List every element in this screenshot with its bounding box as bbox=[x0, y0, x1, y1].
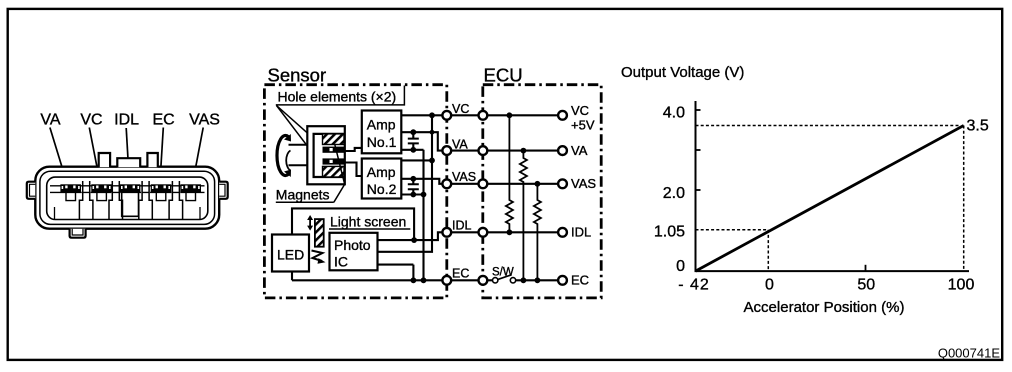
svg-text:VA: VA bbox=[40, 112, 60, 129]
svg-text:LED: LED bbox=[277, 247, 304, 263]
magnet yoke outer box bbox=[307, 126, 345, 184]
junction dot Amp2 ground tap bbox=[421, 192, 427, 198]
svg-text:VC: VC bbox=[80, 112, 102, 129]
junction dot R1 top on VC bbox=[507, 112, 513, 118]
resistor R2 vertical with zigzag bbox=[520, 151, 527, 281]
X axis bbox=[695, 270, 970, 272]
light screen hatched bar bbox=[315, 219, 324, 247]
switch S/W blade bbox=[498, 275, 512, 280]
Y axis bbox=[695, 101, 697, 271]
svg-text:VC: VC bbox=[452, 102, 469, 116]
connector top tab left bbox=[99, 153, 110, 167]
svg-text:3.5: 3.5 bbox=[967, 118, 989, 135]
connector circle IDL ECU side bbox=[479, 228, 488, 237]
svg-text:S/W: S/W bbox=[492, 267, 514, 279]
svg-text:Photo: Photo bbox=[334, 237, 371, 253]
svg-text:VC: VC bbox=[571, 103, 589, 118]
y tick 4.0 bbox=[696, 109, 701, 111]
svg-text:Sensor: Sensor bbox=[268, 65, 327, 86]
pin 4 EC terminal bbox=[151, 184, 172, 192]
harness wire IDL bbox=[451, 231, 479, 233]
junction dot cap C2 top bbox=[410, 176, 416, 182]
svg-text:No.1: No.1 bbox=[367, 134, 397, 150]
cavity deep slot under pin3 bbox=[122, 192, 139, 216]
wire Amp1 ground bbox=[401, 149, 423, 151]
harness wire EC bbox=[451, 279, 479, 281]
wire photo IC IDL output bbox=[378, 232, 443, 240]
svg-text:1.05: 1.05 bbox=[654, 224, 685, 241]
switch S/W contact right bbox=[510, 278, 515, 283]
connector side lug right bbox=[219, 182, 228, 199]
harness wire VAS bbox=[451, 183, 479, 185]
resistor R3 vertical with zigzag bbox=[534, 184, 541, 280]
cavity stub under pin5 bbox=[186, 192, 196, 200]
ECU terminal VC +5V bbox=[558, 111, 567, 120]
ECU wire VC to terminal bbox=[487, 114, 558, 116]
junction dot R3 top on VAS bbox=[535, 181, 541, 187]
dashed vertical at 0 percent bbox=[767, 230, 769, 271]
rib tower between pin2 pin3 bbox=[109, 181, 123, 219]
wire VA output of Amp1 bbox=[401, 132, 442, 150]
photo IC U3 box bbox=[330, 233, 378, 270]
dashed vertical at 100 percent bbox=[963, 126, 965, 272]
connector side lug left inner line bbox=[30, 184, 36, 196]
connector circle EC ECU side bbox=[479, 276, 488, 285]
connector circle VC ECU side bbox=[479, 111, 488, 120]
connector circle VAS sensor side bbox=[442, 179, 451, 188]
cavity stub under pin1 bbox=[66, 192, 76, 200]
svg-text:Magnets: Magnets bbox=[276, 187, 330, 203]
junction dot R2 top on VA bbox=[521, 148, 527, 154]
leader line EC to pin 4 bbox=[160, 128, 164, 186]
svg-text:50: 50 bbox=[857, 277, 875, 294]
connector circle VAS ECU side bbox=[479, 179, 488, 188]
svg-text:Accelerator Position (%): Accelerator Position (%) bbox=[744, 299, 905, 316]
wire hall1 to Amp1 bbox=[345, 148, 362, 151]
Magnets label underline bbox=[276, 201, 334, 203]
photo module wiring top bbox=[292, 208, 414, 280]
connector cavity notch right bbox=[199, 207, 201, 219]
harness wire VA bbox=[451, 150, 479, 152]
y tick 2.0 bbox=[696, 189, 701, 191]
connector bottom tab inner line bbox=[72, 229, 83, 235]
op-amp U2 Amp No.2 box bbox=[362, 159, 402, 199]
magnet 2 hatched bbox=[323, 166, 345, 177]
ECU terminal VAS bbox=[558, 179, 567, 188]
svg-text:Light screen: Light screen bbox=[330, 213, 406, 229]
LED D1 box bbox=[272, 235, 309, 272]
connector top tab middle bbox=[117, 158, 140, 167]
magnet yoke inner C bbox=[314, 134, 345, 177]
junction dot cap C2 bottom bbox=[410, 192, 416, 198]
connector side lug right inner line bbox=[219, 184, 225, 196]
junction dot amp ground bus to EC bbox=[421, 277, 427, 283]
connector top tab right bbox=[147, 153, 157, 167]
connector side lug left bbox=[27, 182, 36, 199]
svg-text:2.0: 2.0 bbox=[663, 185, 685, 202]
junction dot IDL wire at module edge bbox=[411, 237, 417, 243]
leader line to hall element 1 bbox=[277, 106, 323, 147]
transfer characteristic line bbox=[696, 126, 964, 272]
shaft end cap arc bbox=[286, 151, 290, 171]
svg-text:No.2: No.2 bbox=[367, 181, 397, 197]
harness wire VC bbox=[451, 114, 479, 116]
junction dot Amp2 supply tap bbox=[429, 158, 435, 164]
svg-text:100: 100 bbox=[948, 277, 975, 294]
svg-text:VA: VA bbox=[571, 143, 588, 158]
hall element 2 bbox=[323, 158, 345, 164]
svg-text:Q000741E: Q000741E bbox=[938, 345, 1000, 360]
connector cavity notch left bbox=[54, 207, 56, 219]
Magnets leader line bbox=[334, 145, 345, 203]
svg-text:VAS: VAS bbox=[452, 170, 476, 184]
wire Amp2 ground bbox=[401, 193, 423, 195]
connector cavity outline bbox=[47, 177, 208, 219]
wire hall2 to Amp2 bbox=[345, 163, 362, 177]
connector circle VC sensor side bbox=[442, 111, 451, 120]
wire EC line in sensor bbox=[292, 279, 443, 281]
junction dot photo ground to EC bbox=[411, 277, 417, 283]
shaft lower line bbox=[289, 164, 308, 166]
capacitor C2 stubs bbox=[412, 179, 414, 195]
ECU wire EC switch stub bbox=[487, 279, 492, 281]
svg-text:Output Voltage (V): Output Voltage (V) bbox=[621, 64, 744, 81]
ECU terminal EC bbox=[558, 276, 567, 285]
ECU wire IDL to terminal bbox=[487, 231, 558, 233]
vertical wire amp ground bus bbox=[422, 150, 424, 280]
leader line VAS to pin 5 bbox=[192, 128, 203, 186]
wire photo IC ground bbox=[378, 264, 414, 266]
connector circle VA ECU side bbox=[479, 146, 488, 155]
vertical wire VC feed bbox=[378, 115, 433, 252]
resistor R1 vertical with zigzag bbox=[506, 115, 513, 232]
svg-text:0: 0 bbox=[676, 258, 685, 275]
connector bottom tab bbox=[70, 229, 86, 238]
leader line to hall element 2 bbox=[277, 106, 319, 161]
connector circle VA sensor side bbox=[442, 146, 451, 155]
ECU wire VA to terminal bbox=[487, 150, 558, 152]
ECU dashed box bbox=[483, 85, 601, 298]
junction dot VA wire crossing bbox=[430, 130, 435, 135]
y tick 3.0 bbox=[696, 149, 701, 151]
rib tower between pin3 pin4 bbox=[139, 181, 153, 219]
photo module wiring bottom right segment bbox=[412, 265, 414, 281]
leader line VC to pin 2 bbox=[89, 128, 100, 186]
svg-text:EC: EC bbox=[452, 267, 469, 281]
Light screen label underline bbox=[329, 228, 410, 230]
svg-text:VA: VA bbox=[452, 137, 468, 151]
svg-text:Hole elements (×2): Hole elements (×2) bbox=[278, 89, 397, 105]
svg-text:ECU: ECU bbox=[484, 65, 523, 86]
light beam zigzag arrow bbox=[312, 251, 323, 262]
ECU terminal VA bbox=[558, 146, 567, 155]
pin 1 VA terminal bbox=[60, 184, 81, 192]
wire VAS output of Amp2 bbox=[401, 179, 442, 184]
dashed level 1.05 V bbox=[696, 229, 769, 231]
rib tower between pin1 pin2 bbox=[79, 181, 93, 219]
svg-text:EC: EC bbox=[152, 112, 174, 129]
svg-text:IDL: IDL bbox=[452, 219, 472, 233]
rotor arc (lever) bbox=[277, 136, 289, 176]
sensor dashed box bbox=[264, 85, 446, 298]
hall element 1 bbox=[323, 147, 345, 153]
connector shell inner wall bbox=[40, 171, 215, 224]
svg-text:VAS: VAS bbox=[571, 176, 596, 191]
magnet 1 hatched bbox=[323, 134, 345, 145]
wire Amp2 supply from VC feed bbox=[401, 159, 432, 161]
junction dot VC tap bbox=[429, 112, 435, 118]
pin rail lower line bbox=[50, 191, 205, 193]
connector circle EC sensor side bbox=[442, 276, 451, 285]
shaft upper line bbox=[289, 144, 308, 146]
svg-text:0: 0 bbox=[765, 277, 774, 294]
ECU wire EC to terminal bbox=[516, 279, 559, 281]
pin 5 VAS terminal bbox=[180, 184, 201, 192]
junction dot cap C1 bottom bbox=[410, 147, 416, 153]
rotor arc arrowhead bottom bbox=[284, 170, 291, 178]
junction dot R1 bottom on IDL bbox=[507, 229, 513, 235]
ECU terminal IDL bbox=[558, 228, 567, 237]
connector circle IDL sensor side bbox=[442, 228, 451, 237]
svg-text:- 42: - 42 bbox=[678, 277, 710, 294]
leader line IDL to pin 3 bbox=[126, 128, 129, 185]
wire VC from Amp1 to sensor edge bbox=[401, 114, 442, 116]
leader line VA to pin 1 bbox=[50, 128, 68, 186]
capacitor C1 plates bbox=[408, 139, 419, 144]
junction dot R3 bottom on EC bbox=[535, 277, 541, 283]
svg-text:4.0: 4.0 bbox=[663, 105, 685, 122]
capacitor C2 plates bbox=[408, 184, 419, 189]
Hole elements label underline and right edge bbox=[276, 86, 405, 105]
svg-text:+5V: +5V bbox=[571, 118, 595, 133]
ECU wire VAS to terminal bbox=[487, 183, 558, 185]
rotor arc arrowhead top bbox=[284, 134, 291, 142]
svg-text:Amp: Amp bbox=[367, 164, 396, 180]
svg-text:Amp: Amp bbox=[367, 117, 396, 133]
svg-text:IDL: IDL bbox=[571, 225, 591, 240]
junction dot R2 bottom on EC bbox=[521, 277, 527, 283]
dashed level 3.5 V bbox=[696, 125, 959, 127]
rib tower between pin4 pin5 bbox=[169, 181, 183, 219]
svg-text:IDL: IDL bbox=[114, 112, 139, 129]
pin 2 VC terminal bbox=[91, 184, 112, 192]
op-amp U1 Amp No.1 box bbox=[362, 111, 402, 154]
switch S/W contact left bbox=[493, 278, 498, 283]
cavity stub under pin2 bbox=[97, 192, 107, 200]
svg-text:VAS: VAS bbox=[189, 112, 220, 129]
svg-text:IC: IC bbox=[334, 254, 348, 270]
pin rail upper line bbox=[50, 185, 205, 187]
light screen motion arrow bbox=[309, 219, 311, 227]
junction dot cap C1 top bbox=[410, 129, 416, 135]
connector shell outer bbox=[35, 167, 219, 229]
svg-text:EC: EC bbox=[571, 273, 589, 288]
cavity stub under pin4 bbox=[156, 192, 166, 200]
pin 3 IDL terminal bbox=[120, 184, 141, 192]
capacitor C1 stubs bbox=[412, 132, 414, 150]
x tick 50 bbox=[865, 265, 867, 271]
